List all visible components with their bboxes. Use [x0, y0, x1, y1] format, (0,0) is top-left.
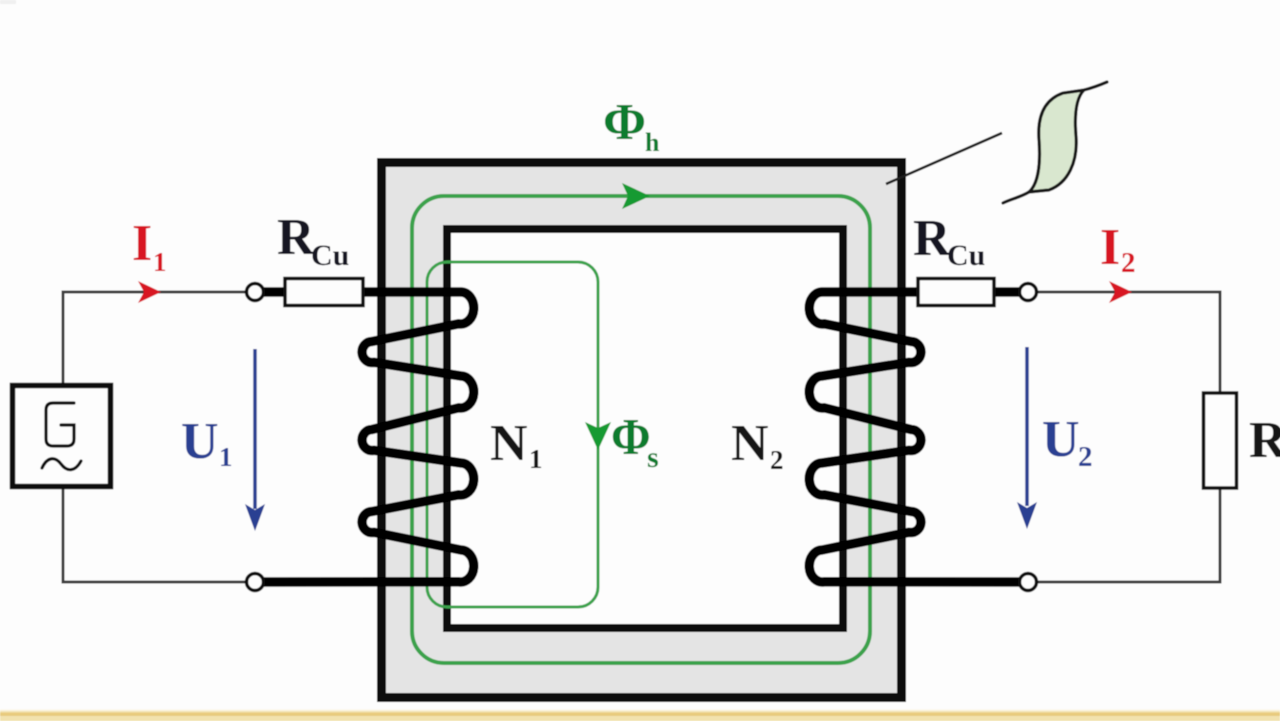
svg-text:N: N [490, 415, 528, 472]
svg-text:2: 2 [1078, 441, 1093, 473]
svg-text:U: U [1042, 411, 1080, 468]
svg-text:Cu: Cu [947, 239, 985, 272]
svg-text:1: 1 [219, 442, 233, 472]
svg-text:2: 2 [770, 445, 784, 475]
svg-text:h: h [645, 128, 660, 157]
svg-text:2: 2 [1121, 247, 1136, 279]
svg-text:U: U [181, 413, 219, 470]
svg-text:Φ: Φ [603, 94, 646, 151]
svg-text:Φ: Φ [611, 407, 651, 465]
svg-text:I: I [1100, 219, 1120, 276]
svg-text:N: N [731, 415, 769, 472]
svg-text:s: s [647, 441, 659, 474]
svg-text:1: 1 [529, 444, 543, 474]
svg-text:1: 1 [153, 247, 167, 277]
svg-text:R: R [1249, 412, 1280, 469]
svg-text:Cu: Cu [311, 239, 349, 272]
svg-text:I: I [132, 215, 152, 272]
